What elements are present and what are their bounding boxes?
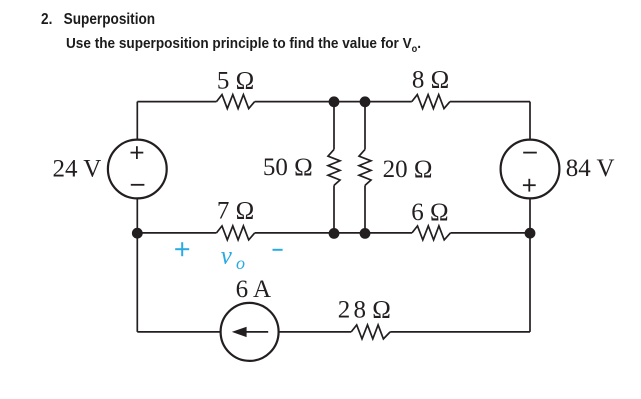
node dot middle far-left junction [132, 228, 143, 239]
wire left vertical lower [136, 198, 138, 332]
resistor R 50ohm vertical zigzag [328, 149, 340, 185]
plus sign of 24V source [131, 152, 144, 154]
wire bottom-right segment [390, 331, 530, 333]
svg-text:Ω: Ω [372, 297, 391, 324]
arrow shaft of 6A current source [240, 331, 268, 333]
svg-text:5 Ω: 5 Ω [217, 67, 254, 94]
svg-text:8 Ω: 8 Ω [412, 67, 449, 94]
heading line 1 [41, 11, 175, 29]
svg-text:84 V: 84 V [566, 155, 615, 182]
wire top-middle segment [255, 101, 412, 103]
wire middle-left segment [137, 232, 216, 234]
svg-text:50 Ω: 50 Ω [263, 154, 313, 181]
svg-text:6 Ω: 6 Ω [411, 199, 448, 226]
plus sign of 84V source [523, 184, 536, 186]
svg-text:2: 2 [338, 297, 351, 324]
label plus of vo [175, 242, 189, 256]
label minus of vo [273, 249, 283, 251]
wire right vertical upper [529, 102, 531, 140]
svg-text:20 Ω: 20 Ω [383, 156, 433, 183]
wire middle-center segment [255, 232, 412, 234]
node dot top-left junction [329, 96, 340, 107]
wire 50ohm branch lower stub [333, 185, 335, 233]
wire bottom-left segment [137, 331, 220, 333]
heading line 2 [66, 36, 453, 55]
node dot middle-left junction [329, 228, 340, 239]
svg-text:7 Ω: 7 Ω [217, 197, 254, 224]
node dot top-right junction [360, 96, 371, 107]
wire left vertical upper [136, 102, 138, 140]
resistor R 6ohm zigzag [412, 226, 450, 240]
wire bottom-middle segment [279, 331, 352, 333]
svg-text:8: 8 [354, 297, 367, 324]
svg-text:24 V: 24 V [53, 155, 102, 182]
resistor R 20ohm vertical zigzag [359, 149, 371, 185]
wire top-right segment [450, 101, 530, 103]
arrow head of 6A current source [232, 327, 247, 337]
voltage source V1 24V circle [108, 140, 167, 199]
svg-text:6 A: 6 A [236, 276, 271, 303]
node dot middle-right junction [360, 228, 371, 239]
node dot middle far-right junction [525, 228, 536, 239]
voltage source V2 84V circle [501, 140, 560, 199]
wire 50ohm branch upper stub [333, 102, 335, 150]
svg-text:vo: vo [221, 242, 245, 273]
resistor R 28ohm zigzag [351, 325, 390, 339]
wire right vertical lower [529, 198, 531, 332]
wire 20ohm branch upper stub [364, 102, 366, 150]
minus sign of 24V source [131, 184, 145, 186]
wire 20ohm branch lower stub [364, 185, 366, 233]
wire middle-right segment [450, 232, 530, 234]
resistor R 5ohm zigzag [217, 95, 255, 109]
resistor R 8ohm zigzag [412, 95, 450, 109]
wire top-left segment [137, 101, 216, 103]
current source I1 6A circle [221, 303, 279, 361]
minus sign of 84V source [523, 152, 537, 154]
resistor R 7ohm zigzag [217, 226, 255, 240]
